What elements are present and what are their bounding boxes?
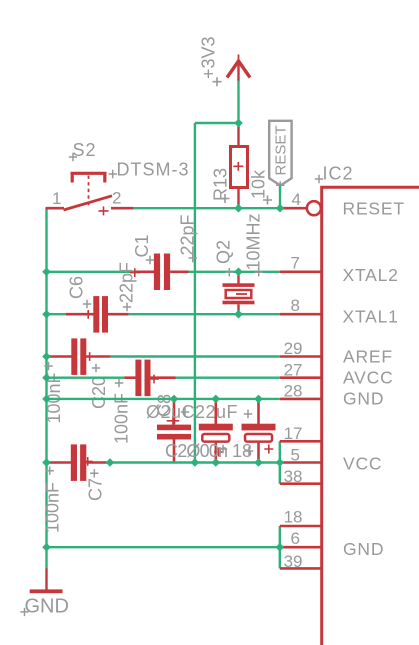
node junction crystal bottom xyxy=(234,310,243,319)
origin cross S2 symbol (red) xyxy=(99,206,109,215)
capacitor C7 xyxy=(47,444,111,481)
svg-text:22pF: 22pF xyxy=(117,262,137,303)
node junction C22 top xyxy=(254,395,263,404)
origin cross C6 label xyxy=(83,300,91,308)
origin cross +3V3 xyxy=(213,77,222,86)
svg-text:GND: GND xyxy=(25,596,69,618)
origin cross IC2 label xyxy=(315,175,323,183)
svg-text:C7: C7 xyxy=(86,478,106,501)
origin cross 10k label xyxy=(263,196,272,205)
node junction bus bottom GND xyxy=(42,543,51,552)
svg-text:IC2: IC2 xyxy=(323,164,354,184)
wire AVCC row left xyxy=(47,377,125,379)
capacitor C18 (100n vertical) xyxy=(157,399,191,463)
wire +3V3 horizontal to R13 top node xyxy=(195,122,239,124)
pin 38 stub xyxy=(280,482,322,485)
wire bottom GND pin column vertical xyxy=(279,526,281,568)
svg-text:C20: C20 xyxy=(89,376,109,409)
origin cross RESET flag xyxy=(276,181,285,189)
resistor R13 xyxy=(231,147,248,188)
origin cross R13 label xyxy=(221,194,230,203)
node junction bus XTAL2 xyxy=(42,268,51,277)
pin 39 stub xyxy=(280,567,322,570)
svg-text:27: 27 xyxy=(284,360,303,379)
node junction bus VCC row xyxy=(42,458,51,467)
node junction RESET row at R13 xyxy=(234,204,243,213)
node junction bus AREF xyxy=(42,352,51,361)
svg-text:29: 29 xyxy=(284,339,303,358)
pin 18 stub xyxy=(280,525,322,528)
node junction C22 bottom xyxy=(254,458,263,467)
origin cross Q2 label xyxy=(225,268,234,276)
origin cross 22pF C6 label xyxy=(123,303,131,311)
origin cross C22 label xyxy=(181,408,189,416)
svg-text:17: 17 xyxy=(284,424,303,443)
svg-text:22pF: 22pF xyxy=(178,214,198,255)
node junction C18 top xyxy=(170,395,179,404)
capacitor C20 xyxy=(47,338,111,375)
wire GND bus vertical xyxy=(45,208,47,568)
svg-text:28: 28 xyxy=(284,382,303,401)
svg-text:Q2: Q2 xyxy=(214,240,234,264)
svg-text:38: 38 xyxy=(284,467,303,486)
svg-text:RESET: RESET xyxy=(343,199,405,219)
wire VCC pin column vertical xyxy=(279,441,281,483)
svg-text:10k: 10k xyxy=(249,169,269,199)
origin cross S2 label xyxy=(69,153,77,161)
node junction C7 right xyxy=(106,458,115,467)
node junction C21 top xyxy=(212,395,221,404)
wire +3V3 feed vertical xyxy=(194,123,196,463)
origin cross C7 label xyxy=(90,469,98,477)
wire +3V3 stem xyxy=(237,80,239,123)
svg-text:AVCC: AVCC xyxy=(343,368,394,388)
supply symbol +3V3 xyxy=(227,55,250,81)
svg-text:RESET: RESET xyxy=(273,125,290,175)
pin 4 inversion bubble xyxy=(307,201,321,215)
wire XTAL2 row right xyxy=(189,271,280,273)
pin 6 stub xyxy=(280,546,322,549)
wire XTAL1 row left xyxy=(47,313,67,315)
node junction bus GND rail xyxy=(42,395,51,404)
pin 27 stub xyxy=(280,376,322,379)
node junction bus XTAL1 xyxy=(42,310,51,319)
wire AVCC row right xyxy=(176,377,280,379)
svg-text:5: 5 xyxy=(291,446,300,465)
switch S2 actuator dashed stem xyxy=(88,176,90,208)
svg-text:39: 39 xyxy=(284,552,303,571)
origin cross 100nF C7 label xyxy=(46,467,54,475)
origin cross labels mid xyxy=(219,445,253,455)
crystal Q2 xyxy=(223,272,255,314)
switch S2 pin 1 stub xyxy=(46,207,65,210)
node junction crystal top xyxy=(234,268,243,277)
pin 29 stub xyxy=(280,355,322,358)
pin 4 stub xyxy=(280,207,306,210)
svg-text:10MHz: 10MHz xyxy=(244,213,264,270)
origin cross 10uF label xyxy=(244,410,252,418)
node junction C21 bottom xyxy=(212,458,221,467)
origin cross 22pF C1 label xyxy=(189,254,198,262)
origin cross C20 label xyxy=(92,364,100,372)
switch S2 actuator bracket xyxy=(71,173,107,182)
svg-text:C2Ø00n: C2Ø00n xyxy=(165,441,227,461)
svg-text:6: 6 xyxy=(291,529,300,548)
origin cross 100nF C20 label xyxy=(44,362,52,370)
origin cross GND label xyxy=(20,608,28,616)
node junction RESET row at flag xyxy=(276,204,285,213)
wire RESET flag to row xyxy=(279,186,281,209)
svg-text:C1: C1 xyxy=(132,234,152,257)
node junction bus AVCC xyxy=(42,373,51,382)
wire XTAL2 row left xyxy=(47,271,137,273)
wire bottom GND row xyxy=(47,546,280,548)
node junction VCC at feed xyxy=(191,458,200,467)
node junction R13 top xyxy=(234,119,243,128)
svg-text:XTAL1: XTAL1 xyxy=(343,307,399,327)
origin cross DTSM-3 label xyxy=(109,170,118,178)
svg-text:7: 7 xyxy=(291,254,300,273)
svg-text:Ø2uC22uF: Ø2uC22uF xyxy=(146,402,238,422)
origin cross 100nF C8 label xyxy=(115,379,123,387)
node junction bottom GND pin column xyxy=(276,543,285,552)
pin 8 stub xyxy=(280,313,322,316)
capacitor C6 xyxy=(66,296,129,333)
node junction VCC at pin column xyxy=(276,458,285,467)
origin cross C1 label xyxy=(146,256,154,264)
wire GND rail row xyxy=(47,398,280,400)
svg-text:2: 2 xyxy=(112,189,121,208)
svg-text:+3V3: +3V3 xyxy=(199,36,219,79)
pin 5 stub xyxy=(280,461,322,464)
wire RESET row (switch to pin 4) xyxy=(133,207,280,209)
svg-text:VCC: VCC xyxy=(343,454,382,474)
svg-text:4: 4 xyxy=(292,190,301,209)
svg-text:XTAL2: XTAL2 xyxy=(343,265,399,285)
pin 17 stub xyxy=(280,440,322,443)
svg-text:R13: R13 xyxy=(211,168,231,201)
svg-text:8: 8 xyxy=(291,296,300,315)
svg-text:18: 18 xyxy=(284,508,303,527)
wire VCC row xyxy=(110,461,280,463)
svg-text:1: 1 xyxy=(52,189,61,208)
svg-text:DTSM-3: DTSM-3 xyxy=(117,160,190,180)
resistor R13 wire bottom xyxy=(237,188,239,208)
svg-text:GND: GND xyxy=(343,539,384,559)
capacitor C22 (10uF polarized) xyxy=(242,399,276,463)
capacitor C21 (10uF polarized) xyxy=(199,399,233,463)
ground symbol GND xyxy=(30,568,63,593)
switch S2 lever xyxy=(64,196,113,210)
origin cross R13 (red) xyxy=(233,162,243,171)
capacitor C8 xyxy=(125,360,176,397)
wire AREF row xyxy=(111,355,280,357)
svg-text:100nF: 100nF xyxy=(112,393,132,444)
net flag RESET xyxy=(269,121,291,186)
svg-text:AREF: AREF xyxy=(343,347,393,367)
svg-text:100nF: 100nF xyxy=(43,482,63,533)
origin cross 10MHz label xyxy=(255,268,264,276)
pin 28 stub xyxy=(280,398,322,401)
wire XTAL1 row right xyxy=(129,313,280,315)
svg-text:GND: GND xyxy=(343,389,384,409)
capacitor C1 xyxy=(130,254,189,291)
pin 7 stub xyxy=(280,270,322,273)
IC2 body xyxy=(322,187,419,645)
svg-text:C6: C6 xyxy=(67,276,87,299)
switch S2 pin 2 stub xyxy=(111,207,134,210)
resistor R1 wire top xyxy=(237,123,239,146)
